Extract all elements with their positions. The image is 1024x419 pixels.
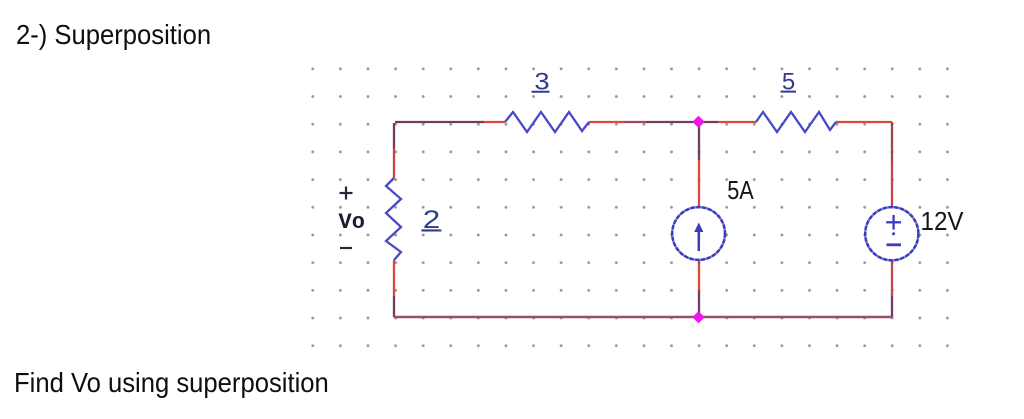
- svg-text:Vo: Vo: [339, 210, 365, 235]
- svg-text:5A: 5A: [727, 175, 754, 205]
- svg-text:12V: 12V: [921, 206, 965, 236]
